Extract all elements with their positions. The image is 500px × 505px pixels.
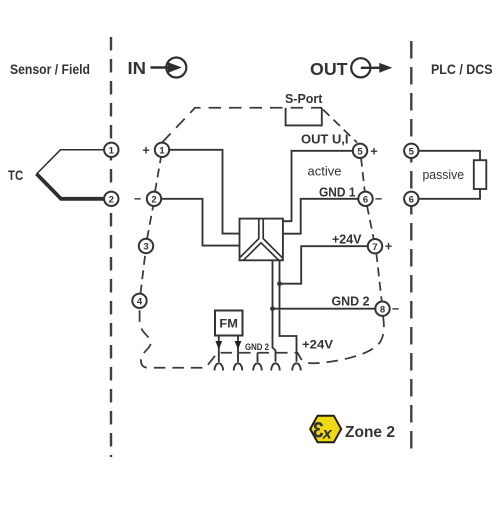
device enclosure dashed boundary: below terminal 8 curving to bottom <box>140 308 384 368</box>
Ex zone marking <box>310 416 341 443</box>
terminal 1 <box>155 143 169 157</box>
svg-text:−: − <box>375 192 382 206</box>
S-Port interface box <box>286 108 322 126</box>
device enclosure dashed boundary: left side through terminals 4-1 <box>141 157 162 294</box>
plug socket 5 (+24V) <box>292 363 301 370</box>
svg-text:Zone 2: Zone 2 <box>345 424 395 441</box>
wire isolator supply to +24V plug <box>280 260 297 362</box>
svg-text:GND 2: GND 2 <box>245 342 269 353</box>
svg-text:2: 2 <box>109 194 114 205</box>
svg-text:active: active <box>308 164 342 179</box>
PLC terminal 6 <box>404 192 418 206</box>
svg-text:8: 8 <box>380 304 385 315</box>
svg-text:5: 5 <box>409 146 415 157</box>
svg-text:1: 1 <box>159 145 165 156</box>
IN direction icon <box>151 58 187 78</box>
plug socket 4 (GND 2) <box>271 363 280 370</box>
terminal 6 <box>358 192 372 206</box>
plug socket 1 <box>215 363 224 370</box>
isolation amplifier U1 (galvanic isolation symbol) <box>240 219 283 261</box>
wire terminal 2 to isolator input <box>161 199 240 246</box>
device enclosure dashed boundary: right side through terminals 5-8 <box>361 158 382 302</box>
svg-text:PLC / DCS: PLC / DCS <box>431 62 493 77</box>
svg-text:+24V: +24V <box>302 340 333 352</box>
svg-text:+: + <box>142 143 149 157</box>
svg-text:passive: passive <box>423 167 465 182</box>
PLC terminal 5 <box>404 144 418 158</box>
svg-text:6: 6 <box>409 194 414 205</box>
svg-text:GND 2: GND 2 <box>332 294 370 309</box>
wire isolator output to terminal 5 <box>283 151 353 221</box>
terminal 5 <box>353 144 367 158</box>
svg-text:5: 5 <box>357 146 363 157</box>
wire +24V rail to terminal 7 <box>280 246 369 284</box>
device enclosure dashed boundary: S-Port to terminal 5 <box>323 110 357 143</box>
svg-text:S-Port: S-Port <box>285 91 323 106</box>
wire isolator output to terminal 6 (GND 1) <box>283 199 359 234</box>
OUT direction icon <box>351 58 392 77</box>
zone boundary right (dashed vertical) <box>410 41 412 457</box>
svg-text:−: − <box>392 302 399 316</box>
terminal 8 <box>375 302 389 316</box>
junction +24V node <box>277 281 282 286</box>
thermocouple TC <box>37 150 105 199</box>
svg-text:IN: IN <box>128 58 147 78</box>
plug socket 3 <box>253 363 262 370</box>
wire PLC terminal 5 to load resistor and terminal 6 <box>418 151 480 199</box>
plug socket 2 <box>234 363 243 370</box>
svg-text:3: 3 <box>143 242 148 253</box>
wire isolator supply to GND2 plug <box>273 260 276 362</box>
wire terminal 1 to isolator input <box>169 150 240 234</box>
svg-text:7: 7 <box>372 242 377 253</box>
field terminal 1 <box>104 143 118 157</box>
svg-text:OUT U,I: OUT U,I <box>301 132 349 147</box>
svg-text:TC: TC <box>8 168 23 183</box>
svg-text:+: + <box>370 144 377 158</box>
wire GND2 rail to terminal 8 <box>273 308 376 310</box>
svg-text:4: 4 <box>137 296 143 307</box>
field terminal 2 <box>104 192 118 206</box>
terminal 4 <box>132 294 146 308</box>
svg-text:GND 1: GND 1 <box>319 184 356 199</box>
svg-text:OUT: OUT <box>310 59 348 79</box>
wire FM to plug 2 with arrow <box>235 336 242 363</box>
terminal 7 <box>368 239 382 253</box>
wire FM to plug 1 with arrow <box>215 336 222 363</box>
device enclosure dashed boundary: top edge from terminal 1 to S-Port <box>162 108 322 143</box>
svg-text:x: x <box>322 426 333 443</box>
svg-text:2: 2 <box>151 194 156 205</box>
svg-text:6: 6 <box>363 194 368 205</box>
FM module box <box>215 311 243 336</box>
terminal 2 <box>147 192 161 206</box>
svg-text:−: − <box>134 192 141 206</box>
zone boundary left (dashed vertical) <box>110 37 112 457</box>
svg-text:+24V: +24V <box>332 231 362 246</box>
svg-text:Sensor / Field: Sensor / Field <box>10 62 90 77</box>
svg-text:FM: FM <box>219 317 238 331</box>
junction GND2 node <box>270 306 275 311</box>
svg-text:+: + <box>385 240 392 254</box>
terminal 3 <box>139 239 153 253</box>
load resistor (passive input) <box>474 160 487 189</box>
stub to plug 3 <box>257 353 259 362</box>
svg-text:1: 1 <box>109 145 115 156</box>
